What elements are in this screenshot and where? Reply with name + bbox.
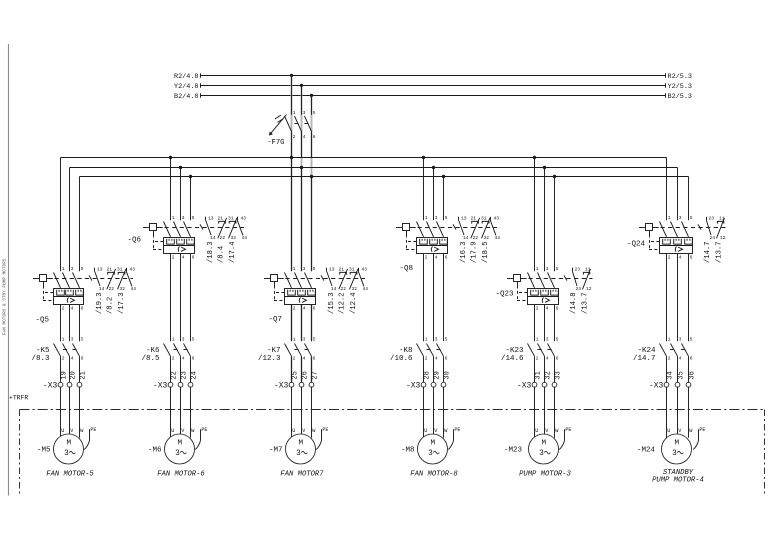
svg-text:13: 13 — [461, 215, 467, 221]
svg-text:3: 3 — [539, 450, 544, 458]
svg-text:33: 33 — [554, 371, 562, 379]
svg-text:4: 4 — [435, 356, 438, 362]
svg-text:4: 4 — [546, 356, 549, 362]
svg-text:/14.7: /14.7 — [704, 241, 712, 263]
svg-text:6: 6 — [313, 134, 316, 140]
svg-text:3: 3 — [71, 336, 74, 342]
svg-text:14: 14 — [210, 235, 216, 241]
svg-text:22: 22 — [109, 286, 115, 292]
svg-text:13: 13 — [329, 266, 335, 272]
svg-text:1: 1 — [293, 336, 296, 342]
svg-text:2: 2 — [293, 306, 296, 312]
svg-text:1: 1 — [536, 336, 539, 342]
svg-text:2: 2 — [172, 356, 175, 362]
svg-text:U: U — [535, 428, 538, 434]
svg-text:5: 5 — [690, 215, 693, 221]
svg-text:32: 32 — [120, 286, 126, 292]
svg-text:PE: PE — [699, 427, 705, 433]
svg-text:6: 6 — [556, 356, 559, 362]
svg-text:22: 22 — [341, 286, 347, 292]
svg-text:M: M — [299, 440, 304, 448]
svg-text:3: 3 — [546, 336, 549, 342]
svg-text:FAN MOTORS & STBY PUMP MOTORS: FAN MOTORS & STBY PUMP MOTORS — [3, 258, 8, 335]
svg-text:U: U — [292, 428, 295, 434]
svg-text:3: 3 — [182, 215, 185, 221]
svg-text:-M6: -M6 — [148, 446, 162, 454]
svg-text:-X3: -X3 — [153, 381, 168, 390]
svg-text:-M23: -M23 — [504, 446, 523, 454]
svg-text:PUMP MOTOR-3: PUMP MOTOR-3 — [519, 471, 571, 479]
svg-text:1: 1 — [425, 215, 428, 221]
svg-text:U: U — [61, 428, 64, 434]
svg-text:3: 3 — [679, 336, 682, 342]
svg-text:4: 4 — [679, 356, 682, 362]
svg-text:1: 1 — [62, 336, 65, 342]
svg-text:1: 1 — [172, 215, 175, 221]
svg-text:44: 44 — [495, 235, 501, 241]
svg-text:-K23: -K23 — [505, 347, 524, 355]
svg-text:32: 32 — [544, 371, 552, 379]
svg-text:/16.3: /16.3 — [460, 241, 468, 263]
svg-text:PUMP MOTOR-4: PUMP MOTOR-4 — [652, 477, 704, 485]
svg-text:3: 3 — [303, 266, 306, 272]
svg-text:3: 3 — [679, 215, 682, 221]
svg-text:3: 3 — [546, 266, 549, 272]
svg-text:31: 31 — [481, 215, 487, 221]
svg-text:-K6: -K6 — [146, 347, 160, 355]
svg-text:PE: PE — [201, 427, 207, 433]
svg-text:43: 43 — [494, 215, 500, 221]
svg-text:14: 14 — [331, 286, 337, 292]
svg-text:M: M — [431, 440, 436, 448]
svg-text:36: 36 — [688, 371, 696, 379]
svg-text:1: 1 — [668, 336, 671, 342]
svg-text:5: 5 — [192, 215, 195, 221]
svg-text:22: 22 — [170, 371, 178, 379]
svg-text:4: 4 — [303, 134, 306, 140]
svg-text:24: 24 — [190, 371, 198, 379]
svg-text:22: 22 — [473, 235, 479, 241]
svg-text:5: 5 — [313, 110, 316, 116]
svg-text:21: 21 — [79, 371, 87, 379]
svg-text:1: 1 — [293, 110, 296, 116]
svg-text:43: 43 — [362, 266, 368, 272]
svg-text:1: 1 — [62, 266, 65, 272]
svg-text:4: 4 — [71, 356, 74, 362]
svg-text:/17.9: /17.9 — [470, 241, 478, 263]
svg-text:12: 12 — [720, 235, 726, 241]
svg-text:FAN MOTOR-6: FAN MOTOR-6 — [157, 471, 205, 479]
svg-text:M: M — [67, 440, 72, 448]
svg-text:21: 21 — [218, 215, 224, 221]
svg-text:1: 1 — [172, 336, 175, 342]
svg-text:3: 3 — [435, 336, 438, 342]
svg-text:/18.3: /18.3 — [207, 241, 215, 263]
svg-text:/12.4: /12.4 — [350, 292, 358, 314]
svg-text:23: 23 — [180, 371, 188, 379]
svg-text:2: 2 — [293, 356, 296, 362]
svg-text:4: 4 — [303, 356, 306, 362]
svg-text:6: 6 — [81, 356, 84, 362]
svg-text:6: 6 — [192, 356, 195, 362]
svg-text:-M24: -M24 — [637, 446, 656, 454]
svg-text:M: M — [542, 440, 547, 448]
svg-text:43: 43 — [241, 215, 247, 221]
svg-text:3: 3 — [175, 450, 180, 458]
svg-text:2: 2 — [62, 306, 65, 312]
svg-text:-K24: -K24 — [637, 347, 656, 355]
svg-text:3: 3 — [435, 215, 438, 221]
svg-text:2: 2 — [62, 356, 65, 362]
svg-text:29: 29 — [433, 371, 441, 379]
svg-text:6: 6 — [192, 255, 195, 261]
svg-text:-K8: -K8 — [399, 347, 413, 355]
svg-text:FAN MOTOR-5: FAN MOTOR-5 — [46, 471, 94, 479]
svg-text:2: 2 — [668, 356, 671, 362]
svg-text:5: 5 — [445, 215, 448, 221]
svg-text:-X3: -X3 — [517, 381, 532, 390]
svg-text:/17.4: /17.4 — [229, 241, 237, 263]
svg-text:3: 3 — [303, 336, 306, 342]
svg-text:5: 5 — [445, 336, 448, 342]
svg-text:5: 5 — [192, 336, 195, 342]
svg-text:PE: PE — [454, 427, 460, 433]
svg-text:4: 4 — [546, 306, 549, 312]
svg-text:B2/4.8: B2/4.8 — [174, 93, 198, 101]
svg-text:3: 3 — [296, 450, 301, 458]
svg-text:14: 14 — [463, 235, 469, 241]
svg-text:/18.5: /18.5 — [482, 241, 490, 263]
svg-text:6: 6 — [445, 356, 448, 362]
svg-text:FAN MOTOR7: FAN MOTOR7 — [280, 471, 324, 479]
svg-text:19: 19 — [60, 371, 68, 379]
svg-text:/12.2: /12.2 — [338, 292, 346, 314]
svg-text:M: M — [178, 440, 183, 448]
svg-text:6: 6 — [313, 356, 316, 362]
svg-text:34: 34 — [666, 371, 674, 379]
svg-text:4: 4 — [71, 306, 74, 312]
svg-text:-F7G: -F7G — [267, 139, 284, 147]
svg-text:/14.7: /14.7 — [633, 355, 656, 363]
svg-text:U: U — [171, 428, 174, 434]
svg-text:4: 4 — [182, 255, 185, 261]
svg-text:25: 25 — [291, 371, 299, 379]
svg-text:12: 12 — [586, 286, 592, 292]
svg-text:+TRFR: +TRFR — [9, 394, 28, 401]
svg-text:-K7: -K7 — [267, 347, 281, 355]
svg-text:3: 3 — [71, 266, 74, 272]
svg-text:STANDBY: STANDBY — [663, 469, 694, 477]
svg-text:31: 31 — [117, 266, 123, 272]
svg-text:/19.3: /19.3 — [96, 292, 104, 314]
svg-text:4: 4 — [303, 306, 306, 312]
svg-text:PE: PE — [90, 427, 96, 433]
svg-text:Y2/5.3: Y2/5.3 — [668, 83, 692, 91]
svg-text:U: U — [667, 428, 670, 434]
svg-text:2: 2 — [536, 356, 539, 362]
svg-text:5: 5 — [81, 336, 84, 342]
svg-text:5: 5 — [556, 336, 559, 342]
svg-text:1: 1 — [536, 266, 539, 272]
svg-text:6: 6 — [690, 356, 693, 362]
svg-text:6: 6 — [313, 306, 316, 312]
svg-text:11: 11 — [585, 266, 591, 272]
svg-text:-M8: -M8 — [401, 446, 415, 454]
svg-text:/8.4: /8.4 — [217, 246, 225, 263]
svg-text:28: 28 — [423, 371, 431, 379]
svg-text:6: 6 — [556, 306, 559, 312]
svg-text:5: 5 — [313, 266, 316, 272]
svg-text:2: 2 — [536, 306, 539, 312]
svg-text:FAN MOTOR-8: FAN MOTOR-8 — [410, 471, 458, 479]
svg-text:44: 44 — [242, 235, 248, 241]
svg-text:30: 30 — [443, 371, 451, 379]
svg-text:-X3: -X3 — [649, 381, 664, 390]
svg-text:3: 3 — [428, 450, 433, 458]
svg-text:/8.3: /8.3 — [31, 355, 50, 363]
svg-text:21: 21 — [107, 266, 113, 272]
svg-text:3: 3 — [64, 450, 69, 458]
svg-text:5: 5 — [556, 266, 559, 272]
svg-text:/15.3: /15.3 — [328, 292, 336, 314]
svg-text:11: 11 — [719, 215, 725, 221]
svg-text:-Q7: -Q7 — [268, 316, 282, 324]
svg-text:13: 13 — [208, 215, 214, 221]
svg-text:43: 43 — [130, 266, 136, 272]
svg-text:1: 1 — [668, 215, 671, 221]
svg-text:6: 6 — [81, 306, 84, 312]
svg-text:Y2/4.8: Y2/4.8 — [174, 83, 198, 91]
svg-text:22: 22 — [220, 235, 226, 241]
svg-text:/14.6: /14.6 — [501, 355, 524, 363]
svg-text:35: 35 — [677, 371, 685, 379]
svg-text:R2/4.8: R2/4.8 — [174, 73, 198, 81]
svg-text:-M5: -M5 — [37, 446, 51, 454]
svg-text:U: U — [424, 428, 427, 434]
svg-text:2: 2 — [172, 255, 175, 261]
svg-text:24: 24 — [576, 286, 582, 292]
svg-text:M: M — [675, 440, 680, 448]
svg-text:3: 3 — [672, 450, 677, 458]
svg-text:PE: PE — [322, 427, 328, 433]
svg-text:32: 32 — [352, 286, 358, 292]
svg-text:6: 6 — [445, 255, 448, 261]
svg-text:3: 3 — [303, 110, 306, 116]
svg-text:PE: PE — [565, 427, 571, 433]
svg-text:-Q8: -Q8 — [399, 265, 413, 273]
svg-text:14: 14 — [99, 286, 105, 292]
svg-text:31: 31 — [228, 215, 234, 221]
svg-text:1: 1 — [293, 266, 296, 272]
svg-text:44: 44 — [131, 286, 137, 292]
svg-text:-X3: -X3 — [43, 381, 58, 390]
svg-text:26: 26 — [301, 371, 309, 379]
svg-text:4: 4 — [182, 356, 185, 362]
svg-text:2: 2 — [668, 255, 671, 261]
svg-text:2: 2 — [425, 255, 428, 261]
svg-text:/13.7: /13.7 — [715, 241, 723, 263]
svg-text:/17.3: /17.3 — [118, 292, 126, 314]
svg-text:31: 31 — [534, 371, 542, 379]
svg-text:5: 5 — [690, 336, 693, 342]
svg-text:13: 13 — [97, 266, 103, 272]
svg-text:21: 21 — [339, 266, 345, 272]
svg-text:32: 32 — [231, 235, 237, 241]
svg-text:/13.7: /13.7 — [581, 292, 589, 314]
svg-text:5: 5 — [313, 336, 316, 342]
svg-text:23: 23 — [709, 215, 715, 221]
svg-text:4: 4 — [435, 255, 438, 261]
svg-text:21: 21 — [471, 215, 477, 221]
svg-text:5: 5 — [81, 266, 84, 272]
svg-text:2: 2 — [293, 134, 296, 140]
svg-text:44: 44 — [363, 286, 369, 292]
svg-text:-X3: -X3 — [274, 381, 289, 390]
svg-text:-X3: -X3 — [406, 381, 421, 390]
svg-text:-M7: -M7 — [269, 446, 283, 454]
svg-text:3: 3 — [182, 336, 185, 342]
svg-text:2: 2 — [425, 356, 428, 362]
svg-text:24: 24 — [710, 235, 716, 241]
svg-text:6: 6 — [690, 255, 693, 261]
svg-text:/10.6: /10.6 — [390, 355, 413, 363]
svg-text:R2/5.3: R2/5.3 — [668, 73, 692, 81]
svg-text:B2/5.3: B2/5.3 — [668, 93, 692, 101]
svg-text:/12.3: /12.3 — [258, 355, 281, 363]
svg-text:27: 27 — [311, 371, 319, 379]
svg-text:/14.8: /14.8 — [570, 292, 578, 314]
svg-text:32: 32 — [484, 235, 490, 241]
svg-text:-K5: -K5 — [36, 347, 50, 355]
svg-text:1: 1 — [425, 336, 428, 342]
svg-text:/8.2: /8.2 — [106, 297, 114, 314]
svg-text:23: 23 — [575, 266, 581, 272]
svg-text:/8.5: /8.5 — [141, 355, 160, 363]
svg-text:4: 4 — [679, 255, 682, 261]
svg-text:20: 20 — [69, 371, 77, 379]
svg-text:-Q6: -Q6 — [127, 236, 141, 244]
svg-text:31: 31 — [349, 266, 355, 272]
svg-text:-Q5: -Q5 — [35, 317, 49, 325]
svg-text:-Q23: -Q23 — [495, 290, 514, 298]
svg-text:-Q24: -Q24 — [627, 241, 646, 249]
